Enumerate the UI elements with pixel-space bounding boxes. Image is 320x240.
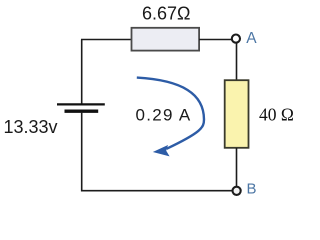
wire: left vertical lower (battery to bottom wire) bbox=[81, 112, 83, 192]
resistor R2 40 ohm (right, vertical) bbox=[225, 80, 249, 148]
wire: top-left horizontal from battery column to resistor R1 bbox=[81, 39, 132, 41]
svg-text:13.33v: 13.33v bbox=[4, 117, 58, 137]
wire: bottom horizontal bbox=[81, 190, 232, 192]
svg-text:A: A bbox=[246, 30, 257, 47]
svg-text:40 Ω: 40 Ω bbox=[259, 105, 294, 125]
node A terminal circle bbox=[232, 35, 240, 43]
svg-text:B: B bbox=[247, 180, 257, 197]
wire: right vertical from node A to R2 bbox=[236, 44, 238, 81]
current loop arc (clockwise) bbox=[137, 78, 204, 149]
wire: top-right horizontal from R1 to node A bbox=[199, 39, 232, 41]
node B terminal circle bbox=[233, 187, 241, 195]
battery V1 bottom plate (short, thick, negative) bbox=[65, 109, 99, 112]
battery V1 top plate (long, positive) bbox=[57, 103, 105, 105]
wire: left vertical upper (battery to top wire) bbox=[81, 40, 83, 105]
resistor R1 6.67 ohm (top, horizontal) bbox=[132, 28, 200, 51]
svg-text:0.29 A: 0.29 A bbox=[136, 105, 192, 124]
current loop arrowhead bbox=[153, 145, 170, 156]
svg-text:6.67Ω: 6.67Ω bbox=[142, 4, 191, 24]
wire: right vertical from R2 to node B bbox=[236, 148, 238, 187]
